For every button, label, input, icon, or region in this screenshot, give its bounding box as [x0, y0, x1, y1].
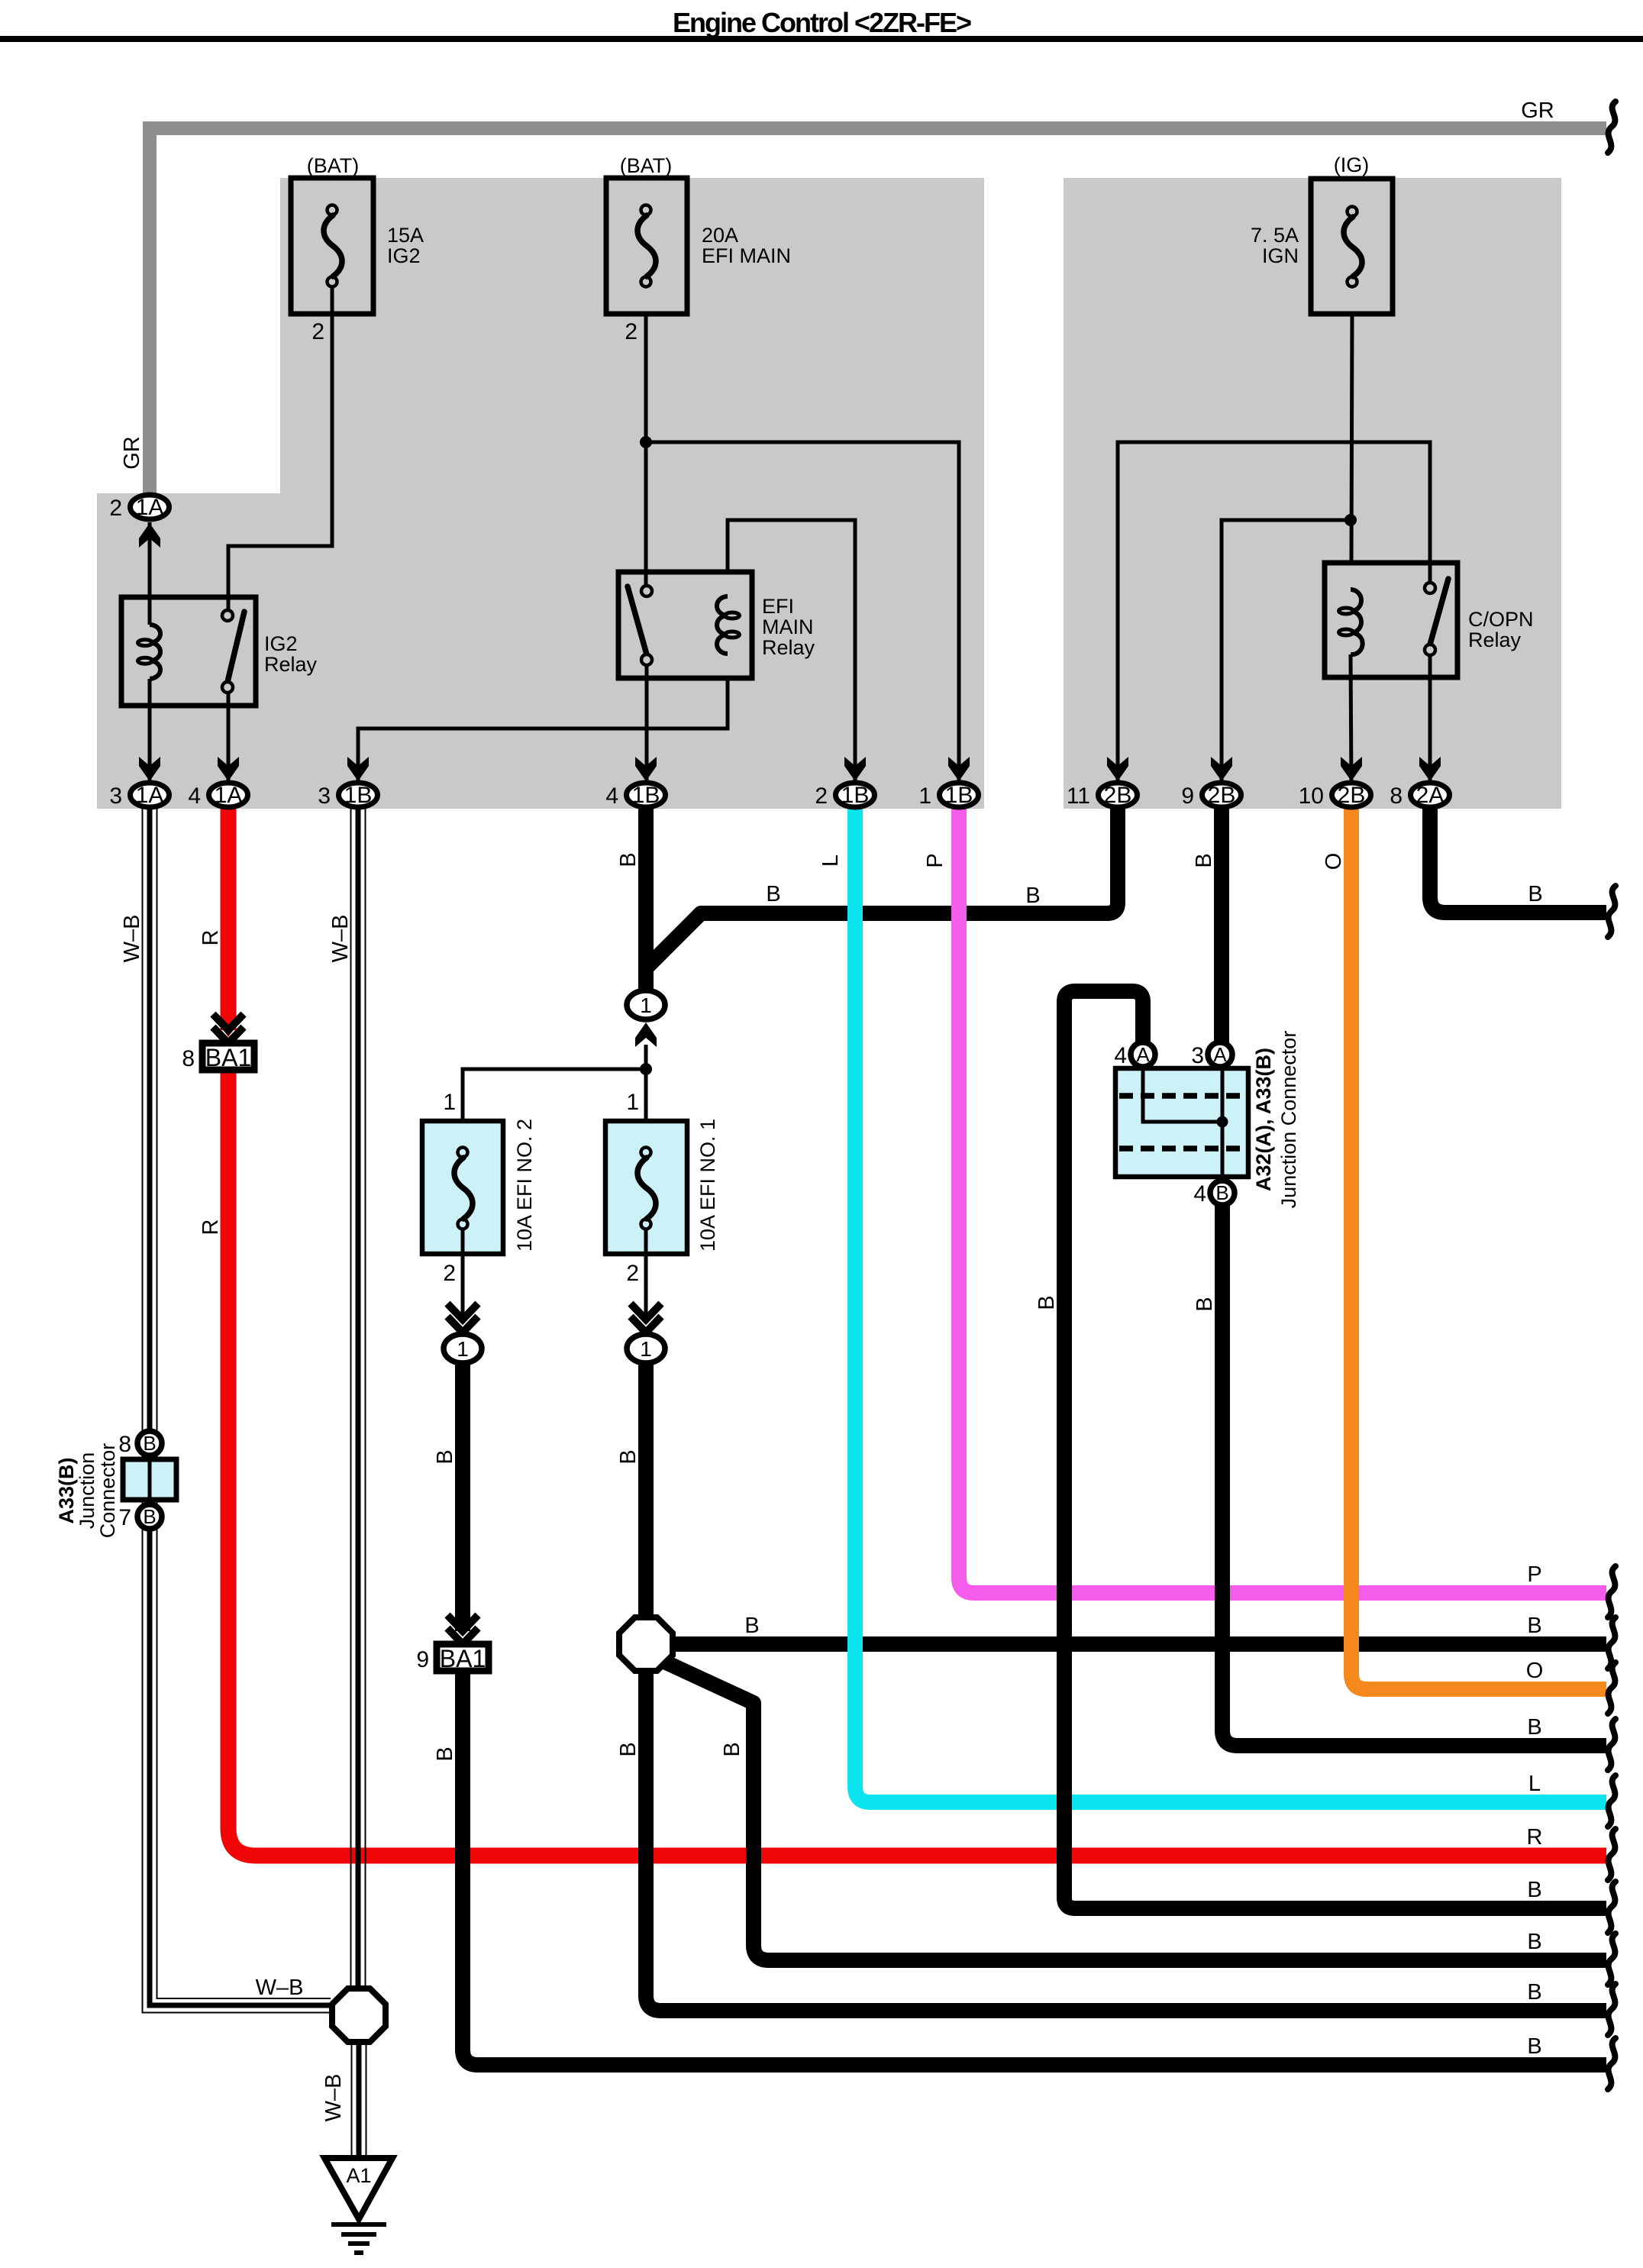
- relay block shading right (junction block 2): [1064, 178, 1561, 809]
- svg-text:B: B: [1215, 1181, 1228, 1204]
- svg-text:B: B: [1527, 1980, 1541, 2005]
- svg-text:4: 4: [1114, 1043, 1127, 1068]
- wire break squiggle P: [1608, 1566, 1616, 1617]
- connector 10-2B: [1299, 757, 1371, 809]
- fuse 10A EFI NO.1: [605, 1090, 719, 1318]
- svg-text:9: 9: [1181, 783, 1194, 809]
- svg-text:9: 9: [416, 1647, 429, 1672]
- svg-text:MAIN: MAIN: [762, 615, 814, 638]
- svg-text:1: 1: [457, 1337, 469, 1361]
- svg-text:W–B: W–B: [256, 1976, 304, 2000]
- wire B hook into junction connector A pin 4 and down to right edge: [1035, 991, 1606, 1908]
- wire C/OPN relay switch to connector 11-2B: [1118, 442, 1430, 787]
- svg-text:1A: 1A: [136, 783, 164, 808]
- svg-text:Junction Connector: Junction Connector: [1277, 1031, 1300, 1209]
- svg-text:2B: 2B: [1208, 783, 1236, 808]
- svg-text:8: 8: [182, 1046, 195, 1071]
- connector 2-1B: [815, 757, 874, 809]
- wire node junction to connector 1-1B: [646, 442, 959, 787]
- svg-text:B: B: [433, 1746, 457, 1761]
- wire B octagon bottom to right edge: [616, 1669, 1606, 2011]
- wire R (red) from 4-1A through BA1 to right edge: [199, 806, 1606, 1856]
- wire B from 9-2B down to junction connector A pin 3: [1192, 806, 1222, 1042]
- wire IG2 relay coil bottom to connector 3-1A: [148, 679, 152, 787]
- svg-text:GR: GR: [120, 436, 144, 470]
- wire IG2 relay switch to connector 4-1A: [227, 687, 231, 787]
- svg-text:EFI MAIN: EFI MAIN: [702, 244, 791, 267]
- wire break squiggle L: [1608, 1775, 1616, 1827]
- svg-text:B: B: [433, 1449, 457, 1464]
- wire node junction to connector 9-2B: [1222, 520, 1351, 787]
- node junction dot above EFI fuses: [463, 1045, 652, 1120]
- title Engine Control <2ZR-FE>: [0, 7, 1643, 42]
- svg-text:2: 2: [311, 319, 324, 344]
- svg-text:B: B: [1527, 1930, 1541, 1954]
- wire break squiggle B 4: [1608, 1882, 1616, 1933]
- svg-text:(BAT): (BAT): [620, 154, 673, 177]
- svg-text:3: 3: [109, 783, 122, 809]
- svg-text:A1: A1: [346, 2164, 371, 2187]
- svg-text:B: B: [1192, 853, 1216, 867]
- junction oval 1 below EFI NO.2 fuse: [444, 1304, 482, 1363]
- svg-text:B: B: [616, 1742, 641, 1756]
- svg-text:8: 8: [1390, 783, 1403, 809]
- wire EFI relay coil bottom to connector 3-1B: [358, 678, 728, 787]
- svg-text:EFI: EFI: [762, 595, 794, 618]
- wire break squiggle O: [1608, 1662, 1616, 1714]
- svg-text:R: R: [199, 1220, 223, 1236]
- svg-text:O: O: [1322, 853, 1346, 871]
- svg-text:Junction: Junction: [76, 1452, 98, 1530]
- svg-text:7. 5A: 7. 5A: [1251, 224, 1299, 247]
- wire IG2 relay coil top to connector 2-1A: [148, 522, 152, 625]
- svg-text:Engine Control <2ZR-FE>: Engine Control <2ZR-FE>: [673, 7, 971, 38]
- svg-text:3: 3: [318, 783, 331, 809]
- svg-text:B: B: [1035, 1295, 1059, 1310]
- svg-text:B: B: [1025, 884, 1040, 908]
- svg-text:2A: 2A: [1416, 783, 1444, 808]
- svg-text:Relay: Relay: [762, 636, 815, 659]
- svg-text:B: B: [720, 1742, 744, 1756]
- svg-text:A32(A), A33(B): A32(A), A33(B): [1252, 1048, 1275, 1191]
- wire GR (gray) from connector 2-1A up and right to edge: [120, 99, 1606, 504]
- connector 11-2B: [1067, 757, 1138, 809]
- svg-text:Relay: Relay: [264, 653, 318, 676]
- svg-text:B: B: [1527, 1878, 1541, 1902]
- connector 4-1A: [188, 757, 247, 809]
- svg-text:4: 4: [605, 783, 618, 809]
- fuse 20A EFI MAIN: [606, 154, 791, 344]
- wire IGN fuse pin down to C/OPN relay coil: [1351, 312, 1352, 563]
- svg-text:R: R: [199, 930, 223, 946]
- connector 9-2B: [1181, 757, 1241, 809]
- svg-text:1A: 1A: [136, 495, 164, 520]
- svg-text:O: O: [1526, 1659, 1544, 1683]
- relay IG2: [121, 597, 318, 706]
- connector 2-1A: [109, 495, 169, 548]
- svg-text:1A: 1A: [215, 783, 243, 808]
- svg-text:10A EFI NO. 2: 10A EFI NO. 2: [513, 1119, 536, 1252]
- svg-text:2B: 2B: [1338, 783, 1366, 808]
- wire EFI relay coil to connector 2-1B: [728, 520, 855, 787]
- wire EFI MAIN fuse pin2 down to EFI relay switch: [644, 313, 648, 587]
- wire break squiggle B 3: [1608, 1719, 1616, 1770]
- relay block shading left (junction block 1): [97, 178, 984, 809]
- wire B octagon diagonal branch to right edge: [663, 1661, 1606, 1960]
- wire P (magenta) from 1-1B down and right to edge: [923, 806, 1606, 1593]
- svg-text:1B: 1B: [632, 783, 660, 808]
- svg-text:C/OPN: C/OPN: [1468, 608, 1534, 631]
- connector 4-1B: [605, 757, 665, 809]
- svg-text:B: B: [744, 1614, 759, 1638]
- svg-text:11: 11: [1067, 783, 1090, 809]
- svg-text:BA1: BA1: [205, 1044, 251, 1071]
- svg-text:3: 3: [1191, 1043, 1204, 1068]
- svg-text:1B: 1B: [945, 783, 973, 808]
- fuse 15A IG2: [291, 154, 424, 344]
- svg-text:P: P: [923, 853, 947, 867]
- svg-text:1: 1: [443, 1090, 456, 1115]
- wire B from 8-2A down and right to edge: [1430, 806, 1606, 913]
- connector 1-1B: [918, 757, 978, 809]
- wire EFI relay switch to connector 4-1B: [645, 664, 649, 787]
- svg-text:8: 8: [118, 1432, 131, 1457]
- svg-text:IG2: IG2: [264, 632, 298, 655]
- svg-text:B: B: [1193, 1297, 1217, 1311]
- svg-text:2: 2: [815, 783, 828, 809]
- svg-text:4: 4: [188, 783, 201, 809]
- svg-text:B: B: [1528, 882, 1542, 906]
- svg-text:A: A: [1213, 1043, 1227, 1066]
- wire B thick from 4-1B down to junction circle 1: [616, 806, 646, 993]
- svg-text:2: 2: [109, 496, 122, 521]
- junction connector A33(B) left: [55, 1431, 176, 1538]
- ground A1: [324, 2158, 392, 2253]
- ground octagon junction (B): [619, 1617, 673, 1671]
- svg-text:10: 10: [1299, 783, 1324, 809]
- svg-text:Connector: Connector: [96, 1443, 119, 1539]
- fuse 10A EFI NO.2: [422, 1090, 536, 1318]
- node junction dot below EFI MAIN fuse: [640, 436, 652, 448]
- svg-text:1B: 1B: [841, 783, 870, 808]
- wire W-B from 3-1A down and right to ground octagon: [120, 806, 332, 2013]
- svg-text:4: 4: [1193, 1181, 1206, 1207]
- relay C/OPN: [1325, 563, 1534, 677]
- svg-text:1: 1: [918, 783, 931, 809]
- svg-text:A: A: [1136, 1043, 1150, 1066]
- wire L (cyan) from 2-1B down and right to edge: [818, 806, 1606, 1802]
- wire O (orange) from 10-2B down and right to edge: [1322, 806, 1606, 1689]
- svg-text:1B: 1B: [344, 783, 373, 808]
- svg-text:B: B: [1527, 1614, 1541, 1638]
- wire B from junction connector B pin 4 down and right to edge: [1193, 1205, 1606, 1746]
- svg-text:10A EFI NO. 1: 10A EFI NO. 1: [696, 1119, 719, 1252]
- svg-text:B: B: [1527, 1715, 1541, 1740]
- svg-text:B: B: [616, 852, 641, 867]
- wire break squiggle GR: [1608, 102, 1616, 153]
- svg-text:BA1: BA1: [440, 1645, 486, 1672]
- svg-text:L: L: [1528, 1772, 1541, 1796]
- svg-text:(BAT): (BAT): [307, 154, 360, 177]
- svg-text:W–B: W–B: [321, 2074, 346, 2122]
- ground octagon junction (W-B): [332, 1989, 386, 2042]
- wire W-B from octagon down to ground A1: [321, 2039, 366, 2160]
- wire B from 11-2B down, left, diagonal into 4-1B feed: [647, 806, 1118, 967]
- svg-text:IGN: IGN: [1262, 244, 1299, 267]
- svg-text:A33(B): A33(B): [55, 1457, 78, 1523]
- wire B from junction oval 1 (EFI NO.1) down to octagon: [616, 1359, 646, 1619]
- node junction dot below IGN fuse: [1344, 514, 1357, 526]
- breakpoint 9-BA1 on wire B: [416, 1615, 489, 1672]
- svg-text:15A: 15A: [387, 224, 424, 247]
- svg-text:2: 2: [625, 319, 638, 344]
- svg-text:L: L: [818, 855, 843, 867]
- svg-text:20A: 20A: [702, 224, 738, 247]
- svg-text:1: 1: [640, 1337, 652, 1361]
- breakpoint 8-BA1 on wire R: [182, 1014, 254, 1071]
- relay EFI MAIN: [618, 572, 815, 678]
- connector 8-2A: [1390, 757, 1449, 809]
- connector 3-1A: [109, 757, 169, 809]
- svg-text:P: P: [1527, 1562, 1541, 1587]
- wire break squiggle R: [1608, 1829, 1616, 1880]
- svg-text:Relay: Relay: [1468, 628, 1522, 651]
- wire B from junction oval 1 (EFI NO.2) down through BA1 to right edge: [433, 1359, 1606, 2065]
- svg-text:7: 7: [118, 1505, 131, 1530]
- wire break squiggle B 7: [1608, 2038, 1616, 2089]
- wire break squiggle B 2: [1608, 1617, 1616, 1669]
- svg-text:B: B: [1527, 2034, 1541, 2059]
- svg-text:B: B: [143, 1505, 156, 1528]
- wire C/OPN relay switch to connector 8-2A: [1428, 654, 1432, 787]
- svg-text:IG2: IG2: [387, 244, 421, 267]
- svg-text:GR: GR: [1521, 99, 1554, 123]
- svg-text:2: 2: [443, 1261, 456, 1286]
- svg-text:W–B: W–B: [120, 915, 144, 963]
- svg-text:B: B: [616, 1449, 641, 1464]
- connector 3-1B: [318, 757, 377, 809]
- junction circle 1 above EFI NO.1 fuse: [627, 990, 665, 1047]
- fuse 7.5A IGN: [1251, 153, 1393, 314]
- svg-text:R: R: [1527, 1825, 1543, 1850]
- svg-text:1: 1: [640, 993, 652, 1017]
- svg-text:2B: 2B: [1104, 783, 1132, 808]
- svg-text:B: B: [143, 1432, 156, 1455]
- wire C/OPN relay coil to connector 10-2B: [1351, 654, 1351, 787]
- svg-text:B: B: [766, 882, 780, 906]
- svg-text:1: 1: [626, 1090, 639, 1115]
- wire break squiggle B 5: [1608, 1934, 1616, 1985]
- wire break squiggle B top: [1608, 886, 1616, 937]
- junction oval 1 below EFI NO.1 fuse: [627, 1304, 665, 1363]
- wire W-B from 3-1B down to ground octagon: [328, 806, 366, 1995]
- svg-text:(IG): (IG): [1334, 153, 1370, 176]
- wire break squiggle B 6: [1608, 1984, 1616, 2035]
- svg-text:2: 2: [626, 1261, 639, 1286]
- wire 15A IG2 fuse pin2 to IG2 relay switch: [228, 313, 332, 612]
- wire B octagon right to edge: [664, 1614, 1606, 1644]
- svg-text:W–B: W–B: [328, 915, 353, 963]
- junction connector A32(A) A33(B): [1114, 1031, 1300, 1209]
